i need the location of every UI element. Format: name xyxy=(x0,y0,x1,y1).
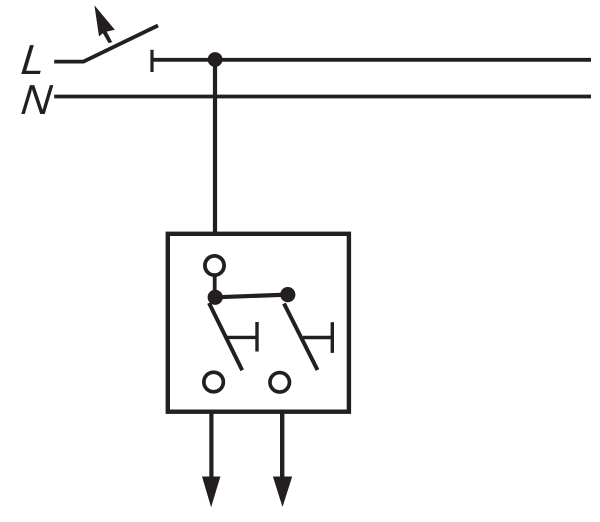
svg-text:N: N xyxy=(19,76,55,123)
